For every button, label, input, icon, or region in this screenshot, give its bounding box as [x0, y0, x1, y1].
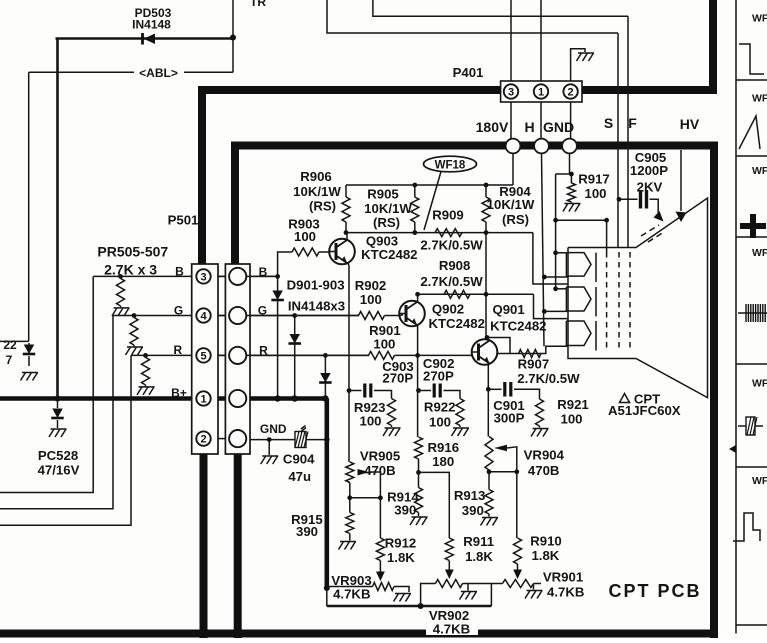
- svg-text:R913: R913: [454, 488, 486, 503]
- svg-text:100: 100: [584, 186, 606, 201]
- svg-text:CPT PCB: CPT PCB: [608, 581, 701, 601]
- svg-text:270P: 270P: [382, 371, 413, 386]
- svg-text:470B: 470B: [528, 463, 560, 478]
- svg-text:R922: R922: [424, 400, 456, 415]
- svg-text:(RS): (RS): [309, 199, 336, 214]
- svg-text:2.7K/0.5W: 2.7K/0.5W: [420, 274, 483, 289]
- svg-text:100: 100: [560, 411, 582, 426]
- svg-text:2: 2: [568, 87, 574, 99]
- svg-text:(RS): (RS): [373, 215, 400, 230]
- svg-text:470B: 470B: [364, 463, 396, 478]
- svg-text:R910: R910: [530, 533, 562, 548]
- svg-text:R916: R916: [428, 440, 460, 455]
- svg-text:R908: R908: [439, 258, 471, 273]
- svg-text:IN4148: IN4148: [132, 18, 171, 32]
- svg-text:100: 100: [294, 229, 316, 244]
- svg-text:R921: R921: [557, 397, 589, 412]
- svg-text:2.7K/0.5W: 2.7K/0.5W: [517, 371, 580, 386]
- svg-text:KTC2482: KTC2482: [490, 319, 546, 334]
- svg-text:1.8K: 1.8K: [531, 548, 559, 563]
- svg-text:WF1: WF1: [752, 378, 767, 390]
- svg-text:180: 180: [432, 454, 454, 469]
- svg-text:300P: 300P: [494, 411, 525, 426]
- svg-text:WF1: WF1: [752, 475, 767, 487]
- svg-text:R: R: [173, 343, 182, 357]
- svg-text:WF18: WF18: [435, 160, 466, 172]
- svg-text:R905: R905: [367, 187, 399, 202]
- svg-text:1.8K: 1.8K: [465, 549, 493, 564]
- svg-text:F: F: [628, 115, 637, 131]
- svg-text:1: 1: [200, 394, 206, 406]
- svg-text:VR904: VR904: [524, 448, 565, 463]
- svg-text:R909: R909: [432, 208, 464, 223]
- svg-text:Q902: Q902: [432, 302, 464, 317]
- svg-text:3: 3: [200, 271, 206, 283]
- svg-text:4: 4: [200, 311, 207, 323]
- svg-text:PR505-507: PR505-507: [97, 244, 168, 260]
- svg-text:PC528: PC528: [38, 448, 78, 463]
- svg-text:G: G: [174, 304, 183, 318]
- svg-text:(RS): (RS): [502, 212, 529, 227]
- svg-text:R917: R917: [578, 172, 610, 187]
- svg-text:WF1: WF1: [752, 13, 767, 25]
- svg-text:Q901: Q901: [492, 302, 524, 317]
- svg-text:B: B: [175, 265, 184, 279]
- svg-text:C904: C904: [283, 452, 315, 467]
- svg-text:KTC2482: KTC2482: [428, 316, 484, 331]
- svg-text:2: 2: [200, 434, 206, 446]
- svg-text:47u: 47u: [288, 469, 311, 484]
- svg-text:H: H: [524, 119, 534, 135]
- svg-text:IN4148x3: IN4148x3: [288, 298, 345, 313]
- svg-text:1: 1: [538, 87, 544, 99]
- svg-text:VR905: VR905: [360, 449, 400, 464]
- svg-text:100: 100: [429, 415, 451, 430]
- svg-text:A51JFC60X: A51JFC60X: [608, 403, 681, 418]
- svg-text:270P: 270P: [423, 369, 454, 384]
- svg-text:R907: R907: [518, 357, 550, 372]
- svg-text:4.7KB: 4.7KB: [333, 587, 370, 602]
- svg-text:VR901: VR901: [543, 569, 583, 584]
- svg-text:100: 100: [360, 292, 382, 307]
- svg-text:22: 22: [3, 338, 17, 352]
- svg-text:100: 100: [373, 337, 395, 352]
- svg-text:S: S: [604, 115, 613, 131]
- svg-text:100: 100: [359, 414, 381, 429]
- svg-text:WF1: WF1: [752, 165, 767, 177]
- svg-text:R912: R912: [385, 535, 417, 550]
- svg-text:4.7KB: 4.7KB: [433, 621, 470, 636]
- svg-text:TR: TR: [250, 0, 266, 9]
- svg-text:D901-903: D901-903: [287, 277, 345, 292]
- svg-text:P501: P501: [168, 213, 199, 228]
- svg-text:R906: R906: [300, 169, 332, 184]
- svg-text:GND: GND: [543, 119, 574, 135]
- svg-text:3: 3: [508, 87, 514, 99]
- svg-text:4.7KB: 4.7KB: [547, 585, 584, 600]
- svg-text:B+: B+: [171, 386, 187, 400]
- svg-text:KTC2482: KTC2482: [361, 247, 417, 262]
- svg-text:47/16V: 47/16V: [38, 463, 80, 478]
- svg-text:180V: 180V: [476, 119, 509, 135]
- svg-text:R902: R902: [355, 278, 387, 293]
- svg-text:HV: HV: [680, 116, 700, 132]
- svg-text:GND: GND: [260, 422, 287, 436]
- svg-text:390: 390: [462, 503, 484, 518]
- svg-text:1.8K: 1.8K: [387, 550, 415, 565]
- svg-text:7: 7: [6, 353, 13, 367]
- svg-text:P401: P401: [453, 65, 484, 80]
- svg-text:10K/1W: 10K/1W: [364, 201, 412, 216]
- svg-text:2.7K x 3: 2.7K x 3: [104, 262, 157, 278]
- svg-text:390: 390: [296, 524, 318, 539]
- svg-text:<ABL>: <ABL>: [139, 66, 178, 80]
- svg-text:10K/1W: 10K/1W: [293, 184, 341, 199]
- svg-text:390: 390: [394, 503, 416, 518]
- svg-text:WF1: WF1: [752, 247, 767, 259]
- svg-text:5: 5: [200, 350, 206, 362]
- svg-text:WF1: WF1: [752, 93, 767, 105]
- svg-text:10K/1W: 10K/1W: [487, 197, 535, 212]
- svg-text:1200P: 1200P: [630, 163, 668, 178]
- svg-text:2.7K/0.5W: 2.7K/0.5W: [420, 238, 483, 253]
- svg-text:R911: R911: [463, 534, 494, 549]
